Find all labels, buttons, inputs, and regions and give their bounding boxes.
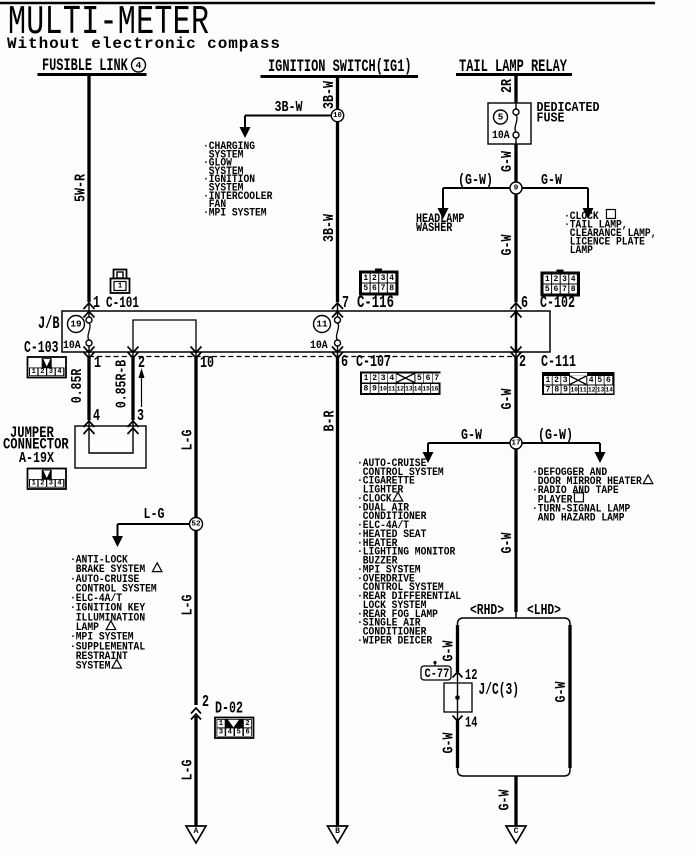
splice 9: [510, 182, 522, 194]
svg-text:1: 1: [364, 374, 369, 383]
svg-text:5: 5: [237, 728, 241, 736]
svg-text:2: 2: [519, 353, 526, 372]
svg-text:10A: 10A: [310, 339, 328, 352]
connector icon C-107: [360, 372, 441, 396]
bus bar under TAIL LAMP RELAY: [456, 73, 572, 76]
svg-text:7: 7: [381, 284, 386, 293]
svg-text:10: 10: [200, 354, 214, 373]
svg-text:4: 4: [57, 480, 61, 488]
svg-text:9: 9: [372, 384, 377, 393]
top border line: [0, 2, 655, 5]
svg-text:0.85R-B: 0.85R-B: [113, 360, 130, 408]
svg-text:3B-W: 3B-W: [275, 99, 303, 116]
jumper internal U link: [89, 426, 133, 453]
wire 0.85R pin1 to jumper pin4: [87, 357, 90, 420]
svg-text:4: 4: [571, 275, 576, 284]
svg-text:3: 3: [563, 376, 568, 385]
svg-text:2: 2: [372, 274, 377, 283]
svg-text:12: 12: [588, 386, 596, 393]
svg-text:10A: 10A: [63, 339, 81, 352]
wire G-W below splice 9: [514, 194, 517, 302]
svg-text:6: 6: [426, 374, 431, 383]
svg-text:3: 3: [562, 275, 567, 284]
svg-text:L-G: L-G: [179, 594, 196, 615]
svg-text:8: 8: [571, 285, 576, 294]
svg-text:3: 3: [49, 368, 53, 376]
terminal triangle B: [328, 826, 348, 843]
svg-text:G-W: G-W: [499, 388, 516, 409]
svg-text:C-101: C-101: [106, 295, 139, 312]
bus bar under IGNITION SWITCH: [261, 75, 419, 78]
svg-text:3: 3: [219, 728, 223, 736]
svg-text:2: 2: [40, 480, 44, 488]
svg-text:1: 1: [32, 480, 36, 488]
svg-text:LAMP: LAMP: [564, 244, 593, 257]
branch 3B-W to charging systems: [245, 115, 331, 117]
svg-text:8: 8: [554, 385, 559, 394]
wire G-W below fuse: [514, 144, 517, 182]
svg-text:1: 1: [93, 294, 100, 313]
svg-text:3B-W: 3B-W: [321, 214, 338, 242]
connector icon C-103: [28, 357, 67, 378]
svg-text:A-19X: A-19X: [19, 451, 55, 468]
svg-text:C-103: C-103: [24, 339, 59, 358]
svg-text:15: 15: [422, 385, 430, 392]
wire L-G from J/B pin 10: [194, 357, 197, 518]
branch to headlamp washer: [443, 187, 510, 189]
svg-text:2: 2: [245, 720, 249, 728]
svg-text:C-102: C-102: [540, 294, 575, 313]
svg-text:IGNITION SWITCH(IG1): IGNITION SWITCH(IG1): [268, 58, 412, 77]
wire G-W below J/B C-111: [514, 357, 517, 437]
pin 14 chevron: [457, 712, 459, 721]
connector C-101 pin 1 chevron: [84, 303, 95, 309]
branch right to defogger list: [522, 442, 600, 444]
svg-text:G-W: G-W: [499, 532, 516, 553]
svg-text:<RHD>: <RHD>: [470, 602, 504, 619]
inline connector 2 D-02: [191, 708, 201, 714]
branch L-G to systems list: [118, 523, 191, 525]
wire 5W-R from fusible link: [87, 75, 90, 303]
dedicated fuse box: [488, 103, 531, 144]
wire L-G below splice 52: [194, 530, 197, 705]
svg-text:12: 12: [397, 385, 405, 392]
svg-text:B-R: B-R: [321, 410, 338, 431]
svg-text:10A: 10A: [492, 129, 510, 142]
svg-text:9: 9: [514, 185, 519, 193]
svg-text:1: 1: [94, 354, 101, 373]
wire G-W to RHD/LHD split: [514, 450, 517, 613]
svg-text:14: 14: [414, 385, 422, 392]
svg-text:1: 1: [363, 274, 368, 283]
connector icon C-116: [375, 269, 382, 273]
svg-text:C-107: C-107: [356, 353, 391, 372]
svg-text:4: 4: [389, 274, 394, 283]
svg-text:G-W: G-W: [440, 640, 457, 661]
svg-text:6: 6: [245, 728, 249, 736]
svg-text:2: 2: [372, 374, 377, 383]
svg-text:9: 9: [563, 385, 568, 394]
svg-text:J/B: J/B: [38, 315, 60, 334]
jumper connector box A-19X: [75, 426, 146, 468]
svg-text:7: 7: [546, 385, 551, 394]
svg-text:17: 17: [511, 440, 520, 448]
svg-text:1: 1: [32, 368, 36, 376]
svg-text:G-W: G-W: [553, 681, 570, 702]
svg-text:D-02: D-02: [215, 700, 243, 719]
svg-text:6: 6: [341, 353, 348, 372]
svg-text:13: 13: [405, 385, 413, 392]
svg-text:3: 3: [49, 480, 53, 488]
branch left to accessory list: [428, 442, 510, 444]
LHD wire G-W: [568, 625, 571, 768]
svg-text:G-W: G-W: [499, 234, 516, 255]
connector icon C-102: [557, 270, 564, 274]
svg-text:10: 10: [379, 385, 387, 392]
svg-text:5: 5: [363, 284, 368, 293]
connector icon C-111: [542, 372, 615, 395]
svg-text:J/C(3): J/C(3): [479, 681, 520, 700]
svg-text:FUSE: FUSE: [537, 110, 565, 126]
direction arrow beside 0.85R-B: [141, 378, 143, 407]
bus bar under FUSIBLE LINK: [38, 73, 147, 76]
J/B internal link pins 2-10: [133, 320, 196, 352]
svg-text:5W-R: 5W-R: [72, 174, 89, 202]
svg-text:6: 6: [606, 376, 611, 385]
svg-text:WASHER: WASHER: [416, 220, 453, 236]
svg-text:16: 16: [431, 385, 439, 392]
wire C-102 through J/B: [511, 303, 522, 309]
svg-text:7: 7: [434, 374, 439, 383]
RHD wire G-W upper: [456, 625, 459, 672]
svg-text:3: 3: [137, 407, 144, 426]
svg-text:4: 4: [136, 60, 142, 71]
svg-text:11: 11: [316, 320, 328, 330]
svg-text:5: 5: [498, 113, 504, 123]
splice 52: [190, 518, 203, 531]
svg-text:<LHD>: <LHD>: [527, 602, 561, 619]
svg-text:2: 2: [554, 376, 559, 385]
wire 3B-W from ignition switch: [336, 77, 339, 303]
fuse 11 in J/B: [314, 316, 331, 333]
svg-text:5: 5: [545, 285, 550, 294]
svg-text:Without electronic compass: Without electronic compass: [7, 35, 280, 53]
wire 2R from tail lamp relay: [514, 75, 517, 104]
svg-text:G-W: G-W: [499, 151, 516, 172]
svg-text:2: 2: [553, 275, 558, 284]
svg-text:1: 1: [219, 720, 223, 728]
svg-text:C-77: C-77: [425, 666, 450, 681]
svg-text:4: 4: [57, 368, 61, 376]
connector C-77 tag: [433, 661, 436, 664]
svg-text:L-G: L-G: [144, 506, 165, 523]
svg-text:G-W: G-W: [440, 732, 457, 753]
svg-text:5: 5: [417, 374, 422, 383]
svg-text:SYSTEM: SYSTEM: [70, 660, 110, 673]
junction block J/B box: [62, 311, 550, 352]
svg-text:C: C: [514, 827, 519, 836]
svg-text:0.85R: 0.85R: [69, 369, 86, 404]
svg-text:1: 1: [545, 275, 550, 284]
terminal triangle C: [506, 826, 526, 843]
svg-text:6: 6: [372, 284, 377, 293]
svg-text:2: 2: [40, 368, 44, 376]
svg-text:11: 11: [388, 385, 396, 392]
svg-text:4: 4: [228, 728, 232, 736]
terminal triangle A: [186, 826, 206, 843]
splice 10: [331, 109, 343, 121]
svg-text:4: 4: [93, 407, 100, 426]
wire L-G to terminal A: [194, 716, 197, 826]
pin 12 chevron: [453, 672, 463, 678]
RHD LHD loop: [515, 612, 517, 618]
svg-text:2: 2: [202, 693, 209, 712]
svg-text:7: 7: [562, 285, 567, 294]
dashed connector line under J/B: [89, 356, 516, 358]
svg-text:13: 13: [597, 386, 605, 393]
junction connector J/C(3): [444, 683, 472, 712]
svg-text:3: 3: [381, 374, 386, 383]
svg-text:7: 7: [342, 294, 349, 313]
RHD wire G-W lower: [456, 721, 459, 768]
svg-text:11: 11: [579, 386, 587, 393]
svg-text:4: 4: [589, 376, 594, 385]
svg-text:G-W: G-W: [461, 427, 482, 444]
connector icon C-101: [111, 270, 130, 294]
svg-text:14: 14: [465, 714, 478, 731]
svg-text:8: 8: [363, 384, 368, 393]
svg-text:8: 8: [389, 284, 394, 293]
svg-text:1: 1: [545, 376, 550, 385]
svg-text:3B-W: 3B-W: [321, 81, 338, 109]
fuse 19 in J/B: [68, 316, 85, 333]
svg-text:G-W: G-W: [496, 789, 513, 810]
svg-text:6: 6: [553, 285, 558, 294]
wire 0.85R-B pin2 to jumper pin3: [131, 357, 134, 420]
svg-text:1: 1: [118, 283, 123, 291]
svg-text:L-G: L-G: [179, 759, 196, 780]
svg-text:(G-W): (G-W): [538, 427, 573, 444]
svg-text:(G-W): (G-W): [458, 172, 493, 189]
svg-text:2R: 2R: [499, 79, 516, 93]
branch to clock tail lamp: [522, 187, 588, 189]
svg-text:12: 12: [465, 666, 477, 683]
svg-text:C-111: C-111: [541, 353, 576, 372]
svg-text:L-G: L-G: [179, 429, 196, 450]
connector icon A-19X: [28, 469, 67, 490]
svg-text:G-W: G-W: [541, 172, 562, 189]
connector icon D-02: [215, 718, 254, 739]
svg-text:B: B: [335, 827, 340, 836]
svg-text:14: 14: [606, 386, 614, 393]
svg-text:A: A: [194, 827, 199, 836]
exit chevrons at J/B bottom: [84, 347, 95, 353]
svg-text:10: 10: [333, 112, 342, 120]
svg-text:3: 3: [381, 274, 386, 283]
wire B-R below J/B to terminal B: [336, 357, 339, 826]
svg-text:AND HAZARD LAMP: AND HAZARD LAMP: [532, 512, 624, 525]
svg-text:·MPI SYSTEM: ·MPI SYSTEM: [203, 207, 267, 220]
svg-text:·WIPER DEICER: ·WIPER DEICER: [357, 635, 433, 648]
svg-text:10: 10: [571, 386, 579, 393]
wire G-W to terminal C: [514, 776, 517, 826]
svg-text:5: 5: [597, 376, 602, 385]
svg-text:6: 6: [521, 294, 528, 313]
splice 17: [510, 437, 522, 449]
svg-text:4: 4: [389, 374, 394, 383]
svg-text:52: 52: [191, 521, 201, 529]
svg-text:19: 19: [70, 320, 81, 330]
